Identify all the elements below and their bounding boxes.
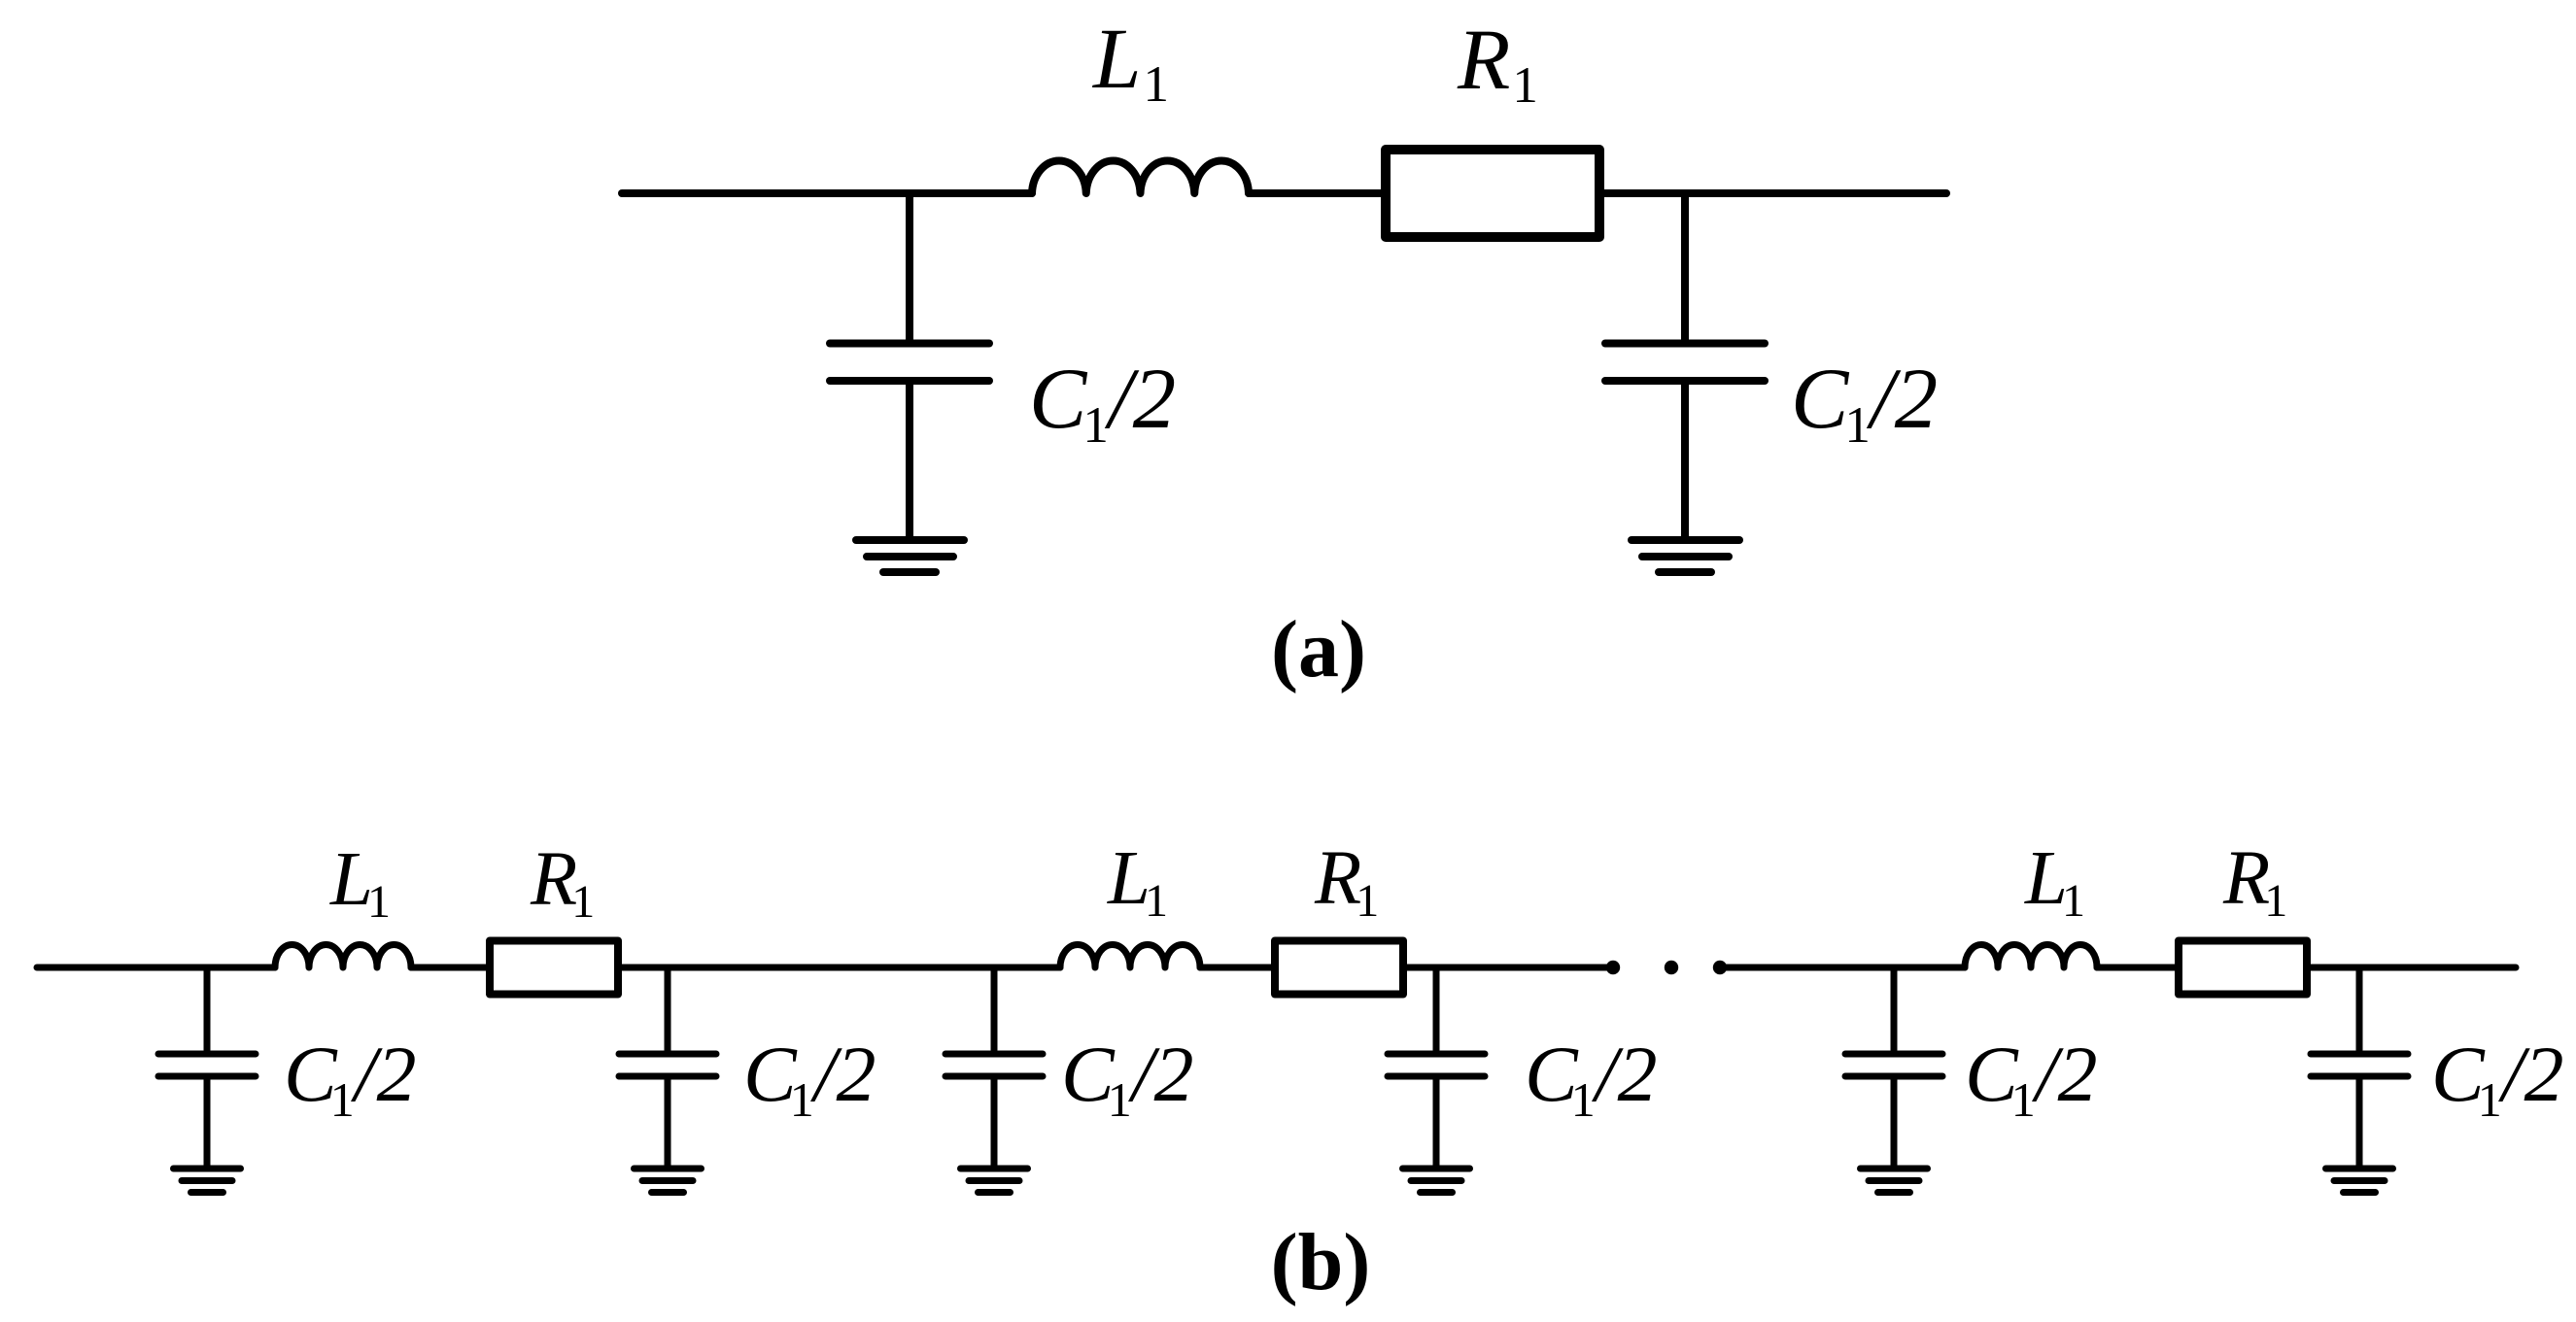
wire output right (a)	[1599, 189, 1946, 197]
ellipsis dot 1 (b)	[1606, 961, 1620, 974]
svg-text:C1/2: C1/2	[284, 1030, 417, 1127]
ground 3 (b)	[961, 1169, 1028, 1193]
svg-text:R1: R1	[1314, 836, 1379, 927]
node right junction (a)	[1681, 193, 1689, 340]
wire cap-to-ground 3 (b)	[991, 1076, 998, 1167]
ground right (a)	[1631, 540, 1739, 572]
wire input left (a)	[622, 189, 1032, 197]
capacitor C1/2 shunt 3 (b)	[945, 1054, 1043, 1076]
resistor R1 third section (b)	[2179, 941, 2307, 995]
node junction 1 (b)	[204, 967, 211, 1050]
ground 1 (b)	[174, 1169, 241, 1193]
inductor L1 second section (b)	[1060, 944, 1200, 967]
capacitor C1/2 shunt 6 (b)	[2311, 1054, 2408, 1076]
resistor R1 second section (b)	[1275, 941, 1403, 995]
capacitor C1/2 shunt 2 (b)	[619, 1054, 716, 1076]
svg-text:R1: R1	[1457, 13, 1538, 114]
resistor R1 (a)	[1386, 150, 1599, 237]
svg-text:R1: R1	[2222, 836, 2287, 927]
wire input left (b)	[37, 965, 275, 971]
node junction 5 (b)	[1891, 967, 1898, 1050]
wire inductor-to-resistor first (b)	[411, 965, 490, 971]
wire cap-to-ground right (a)	[1681, 381, 1689, 538]
ground 5 (b)	[1861, 1169, 1928, 1193]
wire inductor-to-resistor second (b)	[1200, 965, 1275, 971]
svg-text:L1: L1	[1091, 12, 1169, 113]
node left junction (a)	[906, 193, 913, 340]
svg-text:C1/2: C1/2	[1029, 352, 1176, 454]
svg-text:R1: R1	[530, 837, 595, 928]
wire cap-to-ground 4 (b)	[1433, 1076, 1440, 1167]
ground left (a)	[856, 540, 964, 572]
wire inductor-to-resistor (a)	[1249, 189, 1386, 197]
wire output right (b)	[2311, 965, 2516, 971]
capacitor C1/2 right (a)	[1605, 344, 1765, 382]
svg-text:C1/2: C1/2	[1791, 352, 1938, 454]
inductor L1 third section (b)	[1965, 944, 2097, 967]
svg-text:L1: L1	[329, 837, 391, 928]
node junction 4 (b)	[1433, 967, 1440, 1050]
wire dots-to-section3 (b)	[1720, 965, 1965, 971]
ground 6 (b)	[2326, 1169, 2393, 1193]
wire cap-to-ground left (a)	[906, 381, 913, 538]
svg-text:C1/2: C1/2	[1965, 1030, 2098, 1127]
ellipsis dot 2 (b)	[1665, 961, 1678, 974]
capacitor C1/2 shunt 4 (b)	[1388, 1054, 1485, 1076]
wire resistor1-to-section2 (b)	[622, 965, 1060, 971]
node junction 3 (b)	[991, 967, 998, 1050]
resistor R1 first section (b)	[490, 941, 618, 995]
inductor L1 (a)	[1032, 160, 1249, 193]
svg-text:C1/2: C1/2	[1525, 1030, 1658, 1127]
capacitor C1/2 shunt 5 (b)	[1845, 1054, 1942, 1076]
wire resistor2-to-dots (b)	[1407, 965, 1613, 971]
svg-text:L1: L1	[1107, 836, 1168, 927]
capacitor C1/2 left (a)	[830, 344, 989, 382]
wire inductor-to-resistor third (b)	[2097, 965, 2179, 971]
node junction 6 (b)	[2356, 967, 2363, 1050]
inductor L1 first section (b)	[275, 944, 411, 967]
wire cap-to-ground 1 (b)	[204, 1076, 211, 1167]
svg-text:L1: L1	[2024, 836, 2085, 927]
svg-text:C1/2: C1/2	[743, 1030, 876, 1127]
svg-text:(b): (b)	[1271, 1217, 1371, 1307]
ground 2 (b)	[635, 1169, 702, 1193]
capacitor C1/2 shunt 1 (b)	[158, 1054, 256, 1076]
ellipsis dot 3 (b)	[1713, 961, 1727, 974]
wire cap-to-ground 6 (b)	[2356, 1076, 2363, 1167]
svg-text:(a): (a)	[1271, 604, 1366, 695]
node junction 2 (b)	[665, 967, 671, 1050]
svg-text:C1/2: C1/2	[1061, 1030, 1194, 1127]
wire cap-to-ground 5 (b)	[1891, 1076, 1898, 1167]
ground 4 (b)	[1403, 1169, 1470, 1193]
wire cap-to-ground 2 (b)	[665, 1076, 671, 1167]
svg-text:C1/2: C1/2	[2431, 1030, 2564, 1127]
